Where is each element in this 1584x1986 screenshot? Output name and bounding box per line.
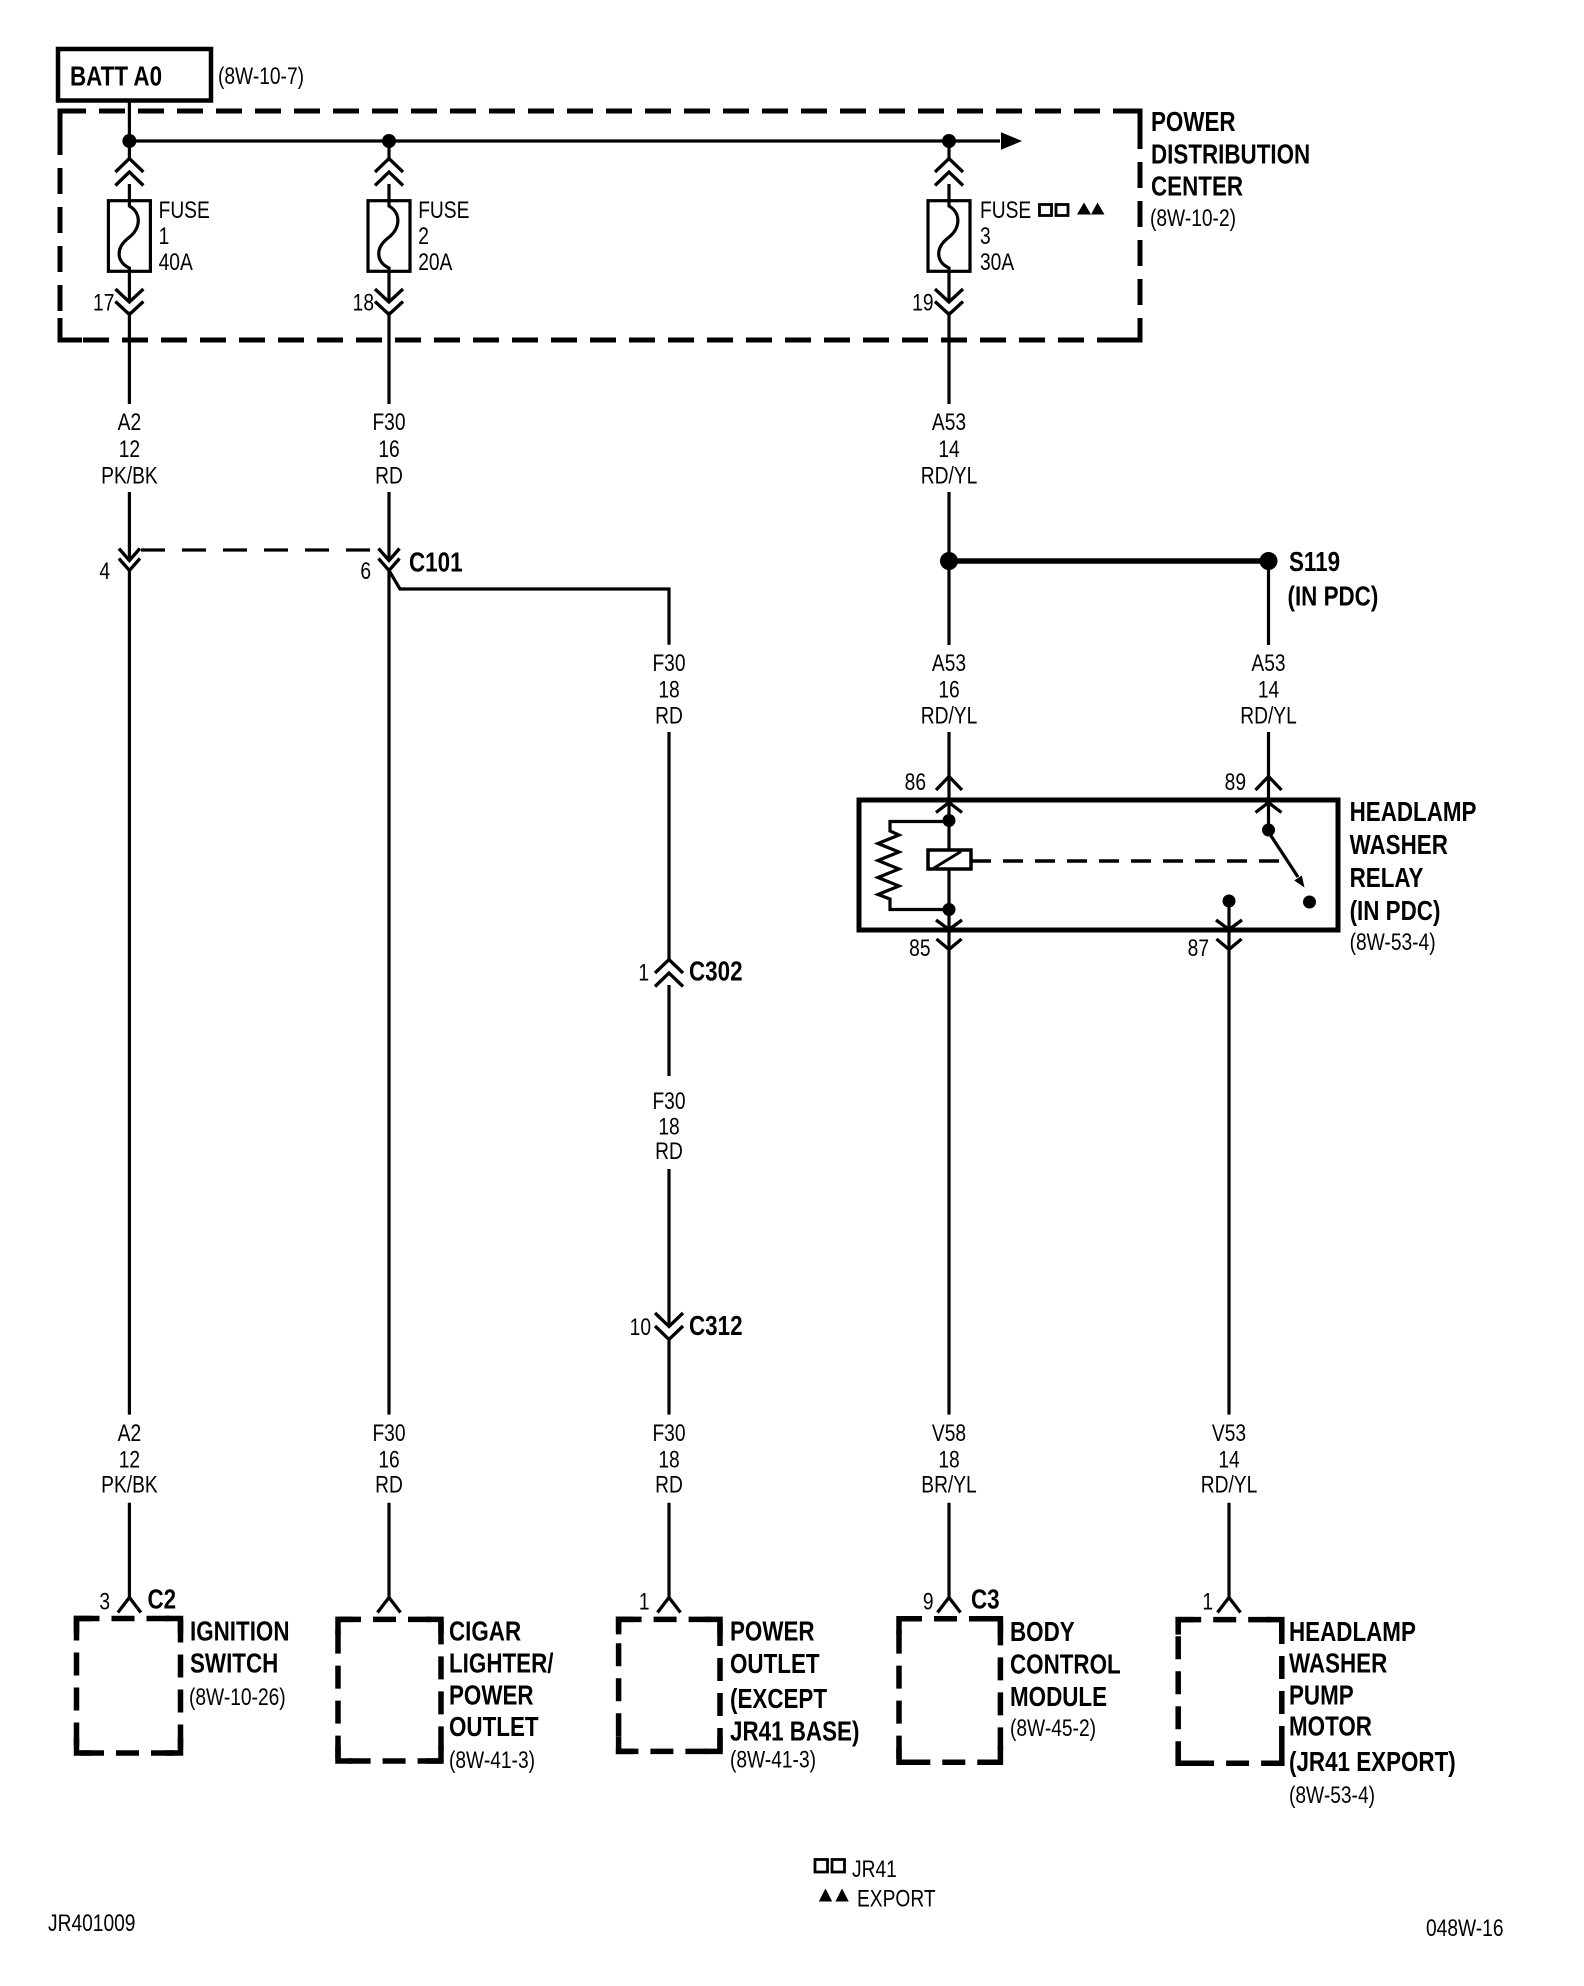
wire C101 down col B [387, 571, 390, 1415]
svg-text:16: 16 [378, 1445, 399, 1473]
wire bus to fuse 3 [947, 141, 950, 201]
svg-text:BODY: BODY [1010, 1617, 1075, 1648]
fuse 3 export marker triangles [1077, 203, 1105, 215]
svg-text:1: 1 [638, 958, 649, 986]
wire label F30 18 RD lower [652, 1419, 685, 1498]
pin 86 outer chevron [936, 777, 962, 791]
wire S119 drop col E [1267, 561, 1270, 645]
wire C302 to C312 [667, 1169, 670, 1415]
cigar lighter power outlet box [338, 1619, 441, 1761]
svg-text:3: 3 [99, 1587, 110, 1615]
relay switch contact node [1303, 896, 1316, 909]
junction node at fuse 3 [942, 134, 956, 148]
svg-text:DISTRIBUTION: DISTRIBUTION [1151, 139, 1310, 170]
svg-text:048W-16: 048W-16 [1426, 1914, 1504, 1942]
svg-text:POWER: POWER [730, 1616, 815, 1647]
svg-text:JR41: JR41 [852, 1855, 897, 1883]
wire relay pin 87 down [1227, 930, 1230, 1415]
wire col B to cigar lighter [387, 1503, 390, 1598]
ignition switch label [189, 1616, 290, 1710]
dashed link wire pin 4 to pin 6 [141, 548, 378, 551]
svg-text:1: 1 [1202, 1587, 1213, 1615]
svg-text:POWER: POWER [1151, 107, 1236, 138]
svg-text:17: 17 [93, 288, 114, 316]
svg-text:MODULE: MODULE [1010, 1682, 1107, 1713]
wire relay pin 85 down [947, 930, 950, 1415]
wire label A53 14 RD/YL right [1240, 649, 1297, 729]
wire label F30 18 RD middle [652, 1087, 685, 1165]
svg-text:C101: C101 [409, 547, 463, 578]
svg-text:MOTOR: MOTOR [1289, 1711, 1372, 1742]
wire col E to washer pump motor [1227, 1503, 1230, 1598]
fuse 3 JR41 marker squares [1040, 205, 1069, 216]
pin 86 inner chevron [936, 803, 962, 813]
svg-text:18: 18 [938, 1445, 959, 1473]
svg-text:(IN PDC): (IN PDC) [1288, 581, 1379, 612]
splice label S119 [1288, 547, 1379, 612]
wire bus to fuse 2 [387, 141, 390, 201]
svg-text:40A: 40A [159, 248, 194, 276]
fuse 3 value label [980, 196, 1031, 276]
wire to relay pin 89 [1267, 732, 1270, 830]
svg-text:87: 87 [1188, 934, 1209, 962]
splice S119 bus wire [949, 558, 1269, 564]
pin 87 outer chevron [1217, 939, 1242, 950]
svg-text:PK/BK: PK/BK [101, 461, 158, 489]
svg-text:9: 9 [923, 1587, 934, 1615]
svg-text:(IN PDC): (IN PDC) [1350, 896, 1441, 927]
wire label V53 14 RD/YL [1201, 1419, 1258, 1498]
svg-text:(8W-10-7): (8W-10-7) [218, 62, 304, 90]
splice node S119 [1260, 552, 1278, 570]
relay actuation dashed link [971, 859, 1281, 863]
wire label A2 12 PK/BK upper [101, 408, 158, 489]
wire label F30 16 RD upper [372, 408, 405, 489]
svg-text:86: 86 [905, 768, 926, 796]
svg-text:18: 18 [658, 675, 679, 703]
svg-text:F30: F30 [652, 1419, 685, 1447]
svg-text:(8W-10-26): (8W-10-26) [189, 1683, 286, 1711]
bus wire inside PDC with arrow [129, 132, 1022, 149]
svg-text:(EXCEPT: (EXCEPT [730, 1684, 827, 1715]
wire col A to ignition switch [128, 1503, 131, 1598]
svg-text:89: 89 [1225, 768, 1246, 796]
power outlet box [619, 1619, 720, 1751]
pin 9 connector chevron C3 [938, 1598, 961, 1613]
cigar lighter label [449, 1616, 553, 1773]
svg-text:FUSE: FUSE [418, 196, 469, 224]
pin 10 chevrons C312 [655, 1313, 683, 1340]
svg-text:A53: A53 [1251, 649, 1285, 677]
wire label F30 18 RD branch [652, 649, 685, 729]
svg-text:1: 1 [159, 222, 170, 250]
headlamp washer pump motor box [1178, 1620, 1282, 1764]
svg-text:14: 14 [1258, 675, 1279, 703]
svg-text:HEADLAMP: HEADLAMP [1289, 1617, 1416, 1648]
svg-text:(8W-45-2): (8W-45-2) [1010, 1714, 1096, 1742]
pin 89 inner chevron [1256, 803, 1282, 813]
svg-text:14: 14 [938, 435, 959, 463]
svg-text:HEADLAMP: HEADLAMP [1350, 797, 1477, 828]
svg-text:CONTROL: CONTROL [1010, 1649, 1121, 1680]
svg-text:OUTLET: OUTLET [730, 1649, 820, 1680]
svg-text:OUTLET: OUTLET [449, 1712, 539, 1743]
wire fuse 2 to pin 18 [387, 271, 390, 404]
wire label A2 12 PK/BK lower [101, 1419, 158, 1498]
svg-text:19: 19 [912, 288, 933, 316]
pin 89 outer chevron [1256, 777, 1282, 791]
connector chevrons above fuse 1 [115, 159, 143, 186]
relay label [1350, 797, 1477, 956]
svg-text:V53: V53 [1212, 1419, 1246, 1447]
relay coil top node [943, 814, 956, 827]
wire C101 down col A [128, 571, 131, 1415]
legend JR41 squares [815, 1860, 845, 1873]
relay switch pivot node [1262, 824, 1275, 837]
body control module box [899, 1619, 1000, 1763]
wire pin 6 drop [387, 492, 390, 560]
svg-text:LIGHTER/: LIGHTER/ [449, 1648, 553, 1679]
wire pin 87 inside relay [1227, 901, 1230, 930]
svg-text:12: 12 [119, 435, 140, 463]
pump motor pin 1 chevron [1218, 1598, 1241, 1613]
junction node at fuse 1 [122, 134, 136, 148]
svg-text:F30: F30 [372, 408, 405, 436]
svg-text:PUMP: PUMP [1289, 1680, 1354, 1711]
svg-text:RD: RD [655, 1137, 683, 1165]
relay coil resistor [878, 822, 949, 910]
svg-text:BATT A0: BATT A0 [70, 61, 162, 92]
svg-text:S119: S119 [1289, 547, 1340, 578]
svg-text:4: 4 [99, 557, 110, 585]
svg-text:C3: C3 [971, 1584, 1000, 1615]
fuse 1 [108, 201, 150, 272]
legend EXPORT triangles [819, 1889, 849, 1902]
svg-text:CIGAR: CIGAR [449, 1616, 521, 1647]
svg-text:F30: F30 [652, 1087, 685, 1115]
svg-text:F30: F30 [652, 649, 685, 677]
wire col D to body control module [947, 1503, 950, 1598]
svg-text:3: 3 [980, 222, 991, 250]
svg-text:20A: 20A [418, 248, 453, 276]
body control module label [1010, 1617, 1121, 1742]
wire label A53 16 RD/YL [921, 649, 978, 729]
svg-text:18: 18 [658, 1445, 679, 1473]
svg-text:JR41 BASE): JR41 BASE) [730, 1716, 859, 1747]
svg-text:1: 1 [639, 1587, 650, 1615]
fuse 2 [368, 201, 410, 272]
svg-text:RD/YL: RD/YL [1240, 701, 1297, 729]
svg-text:10: 10 [630, 1313, 651, 1341]
power outlet pin 1 chevron [658, 1598, 681, 1613]
wire fuse 3 to pin 19 [947, 271, 950, 404]
wire col C to power outlet [667, 1503, 670, 1598]
wire to relay pin 86 [947, 732, 950, 850]
svg-text:6: 6 [360, 557, 371, 585]
svg-text:RELAY: RELAY [1350, 863, 1424, 894]
wire label F30 16 RD lower [372, 1419, 405, 1498]
power outlet label [730, 1616, 859, 1773]
pin 87 inner chevron [1216, 920, 1242, 930]
svg-text:RD: RD [655, 1470, 683, 1498]
pin 85 outer chevron [937, 939, 962, 950]
svg-text:RD/YL: RD/YL [921, 461, 978, 489]
svg-text:F30: F30 [372, 1419, 405, 1447]
wire from BATT A0 to bus [128, 101, 131, 142]
svg-text:(8W-10-2): (8W-10-2) [1150, 204, 1236, 232]
wire branch C101 to col C [389, 571, 669, 645]
pin 19 chevrons [935, 289, 963, 315]
svg-text:16: 16 [938, 675, 959, 703]
svg-text:14: 14 [1218, 1445, 1239, 1473]
svg-text:V58: V58 [932, 1419, 966, 1447]
svg-text:WASHER: WASHER [1289, 1648, 1387, 1679]
svg-text:JR401009: JR401009 [48, 1909, 135, 1937]
svg-text:POWER: POWER [449, 1680, 534, 1711]
svg-text:16: 16 [378, 435, 399, 463]
svg-text:C2: C2 [148, 1584, 177, 1615]
wire bus to fuse 1 [128, 141, 131, 201]
pin 85 inner chevron [936, 920, 962, 930]
relay pin 87 node [1223, 895, 1236, 908]
cigar lighter connector chevron [378, 1598, 401, 1613]
svg-text:BR/YL: BR/YL [921, 1470, 976, 1498]
svg-text:C302: C302 [689, 956, 743, 987]
pin 4 chevrons C101 [119, 549, 140, 571]
relay switch blade [1269, 832, 1305, 888]
svg-text:IGNITION: IGNITION [190, 1616, 290, 1647]
wire col C to C302 [667, 732, 670, 1076]
splice node left [940, 552, 958, 570]
svg-text:(8W-53-4): (8W-53-4) [1289, 1781, 1375, 1809]
svg-text:A2: A2 [118, 408, 141, 436]
junction node at fuse 2 [382, 134, 396, 148]
connector chevrons above fuse 2 [375, 159, 403, 186]
pin 17 chevrons [115, 289, 143, 315]
svg-text:(8W-41-3): (8W-41-3) [449, 1746, 535, 1774]
power distribution center label [1150, 107, 1310, 232]
svg-text:18: 18 [658, 1112, 679, 1140]
svg-text:12: 12 [119, 1445, 140, 1473]
svg-text:WASHER: WASHER [1350, 830, 1448, 861]
svg-text:SWITCH: SWITCH [190, 1648, 278, 1679]
svg-text:EXPORT: EXPORT [857, 1884, 936, 1912]
relay coil symbol [928, 850, 971, 869]
fuse 1 value label [159, 196, 210, 276]
headlamp washer relay box [859, 800, 1338, 930]
fuse 2 value label [418, 196, 469, 276]
svg-text:PK/BK: PK/BK [101, 1470, 158, 1498]
svg-text:2: 2 [418, 222, 429, 250]
svg-text:RD/YL: RD/YL [921, 701, 978, 729]
wire pin 19 drop to splice [947, 492, 950, 645]
svg-text:RD: RD [375, 461, 403, 489]
svg-text:C312: C312 [689, 1311, 743, 1342]
svg-text:A53: A53 [932, 649, 966, 677]
svg-text:RD/YL: RD/YL [1201, 1470, 1258, 1498]
svg-text:RD: RD [655, 701, 683, 729]
svg-text:(8W-41-3): (8W-41-3) [730, 1745, 816, 1773]
svg-text:A53: A53 [932, 408, 966, 436]
pin 3 connector chevron C2 [118, 1598, 141, 1613]
pin 1 chevrons C302 [655, 960, 683, 987]
ignition switch box [77, 1619, 181, 1754]
svg-text:(JR41 EXPORT): (JR41 EXPORT) [1289, 1747, 1456, 1778]
svg-text:18: 18 [353, 288, 374, 316]
connector chevrons above fuse 3 [935, 159, 963, 186]
pin 18 chevrons [375, 289, 403, 315]
svg-text:FUSE: FUSE [980, 196, 1031, 224]
wire pin 4 drop [128, 492, 131, 560]
wire fuse 1 to pin 17 [128, 271, 131, 404]
pin 6 chevrons C101 [379, 549, 400, 571]
svg-text:30A: 30A [980, 248, 1015, 276]
svg-text:CENTER: CENTER [1151, 171, 1243, 202]
relay coil bottom node [943, 903, 956, 916]
wire coil to bottom node [947, 869, 950, 930]
svg-text:FUSE: FUSE [159, 196, 210, 224]
wire label A53 14 RD/YL upper [921, 408, 978, 489]
svg-text:85: 85 [909, 934, 930, 962]
power distribution center dashed boundary [60, 111, 1140, 340]
svg-text:A2: A2 [118, 1419, 141, 1447]
fuse 3 [928, 201, 970, 272]
wire label V58 18 BR/YL [921, 1419, 976, 1498]
battery feed box BATT A0 [58, 49, 211, 101]
svg-text:RD: RD [375, 1470, 403, 1498]
headlamp washer pump motor label [1289, 1617, 1456, 1809]
svg-text:(8W-53-4): (8W-53-4) [1350, 928, 1436, 956]
